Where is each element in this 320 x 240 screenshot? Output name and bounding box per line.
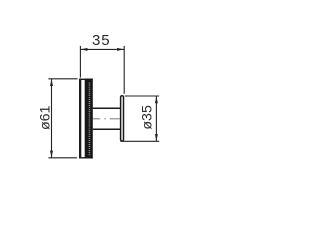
dimension 35 left arrowhead [81, 48, 88, 51]
dimension ø35 bottom arrowhead [155, 134, 158, 141]
svg-text:ø35: ø35 [140, 105, 156, 130]
dimension 35 right extension line [123, 46, 125, 94]
dimension ø61 bottom extension line [48, 157, 77, 159]
dimension ø35 top extension line [125, 95, 159, 97]
knob disc ø35 [121, 96, 124, 141]
dimension ø35 bottom extension line [120, 140, 159, 142]
svg-text:35: 35 [92, 32, 110, 49]
dimension ø35 top arrowhead [155, 96, 158, 103]
flange body ø61 outline [79, 79, 93, 159]
dimension 35 left extension line [79, 46, 81, 78]
centerline [93, 118, 120, 120]
dimension ø61 bottom arrowhead [50, 151, 53, 158]
dimension ø61 top arrowhead [50, 79, 53, 86]
flange knurled edge [85, 79, 93, 159]
dimension 35 line [80, 48, 124, 50]
dimension ø35 line [155, 96, 157, 141]
dimension 35 right arrowhead [117, 48, 124, 51]
dimension ø61 line [51, 79, 53, 158]
stem bottom line [93, 128, 121, 130]
stem top line [93, 107, 121, 109]
dimension ø61 top extension line [48, 78, 77, 80]
